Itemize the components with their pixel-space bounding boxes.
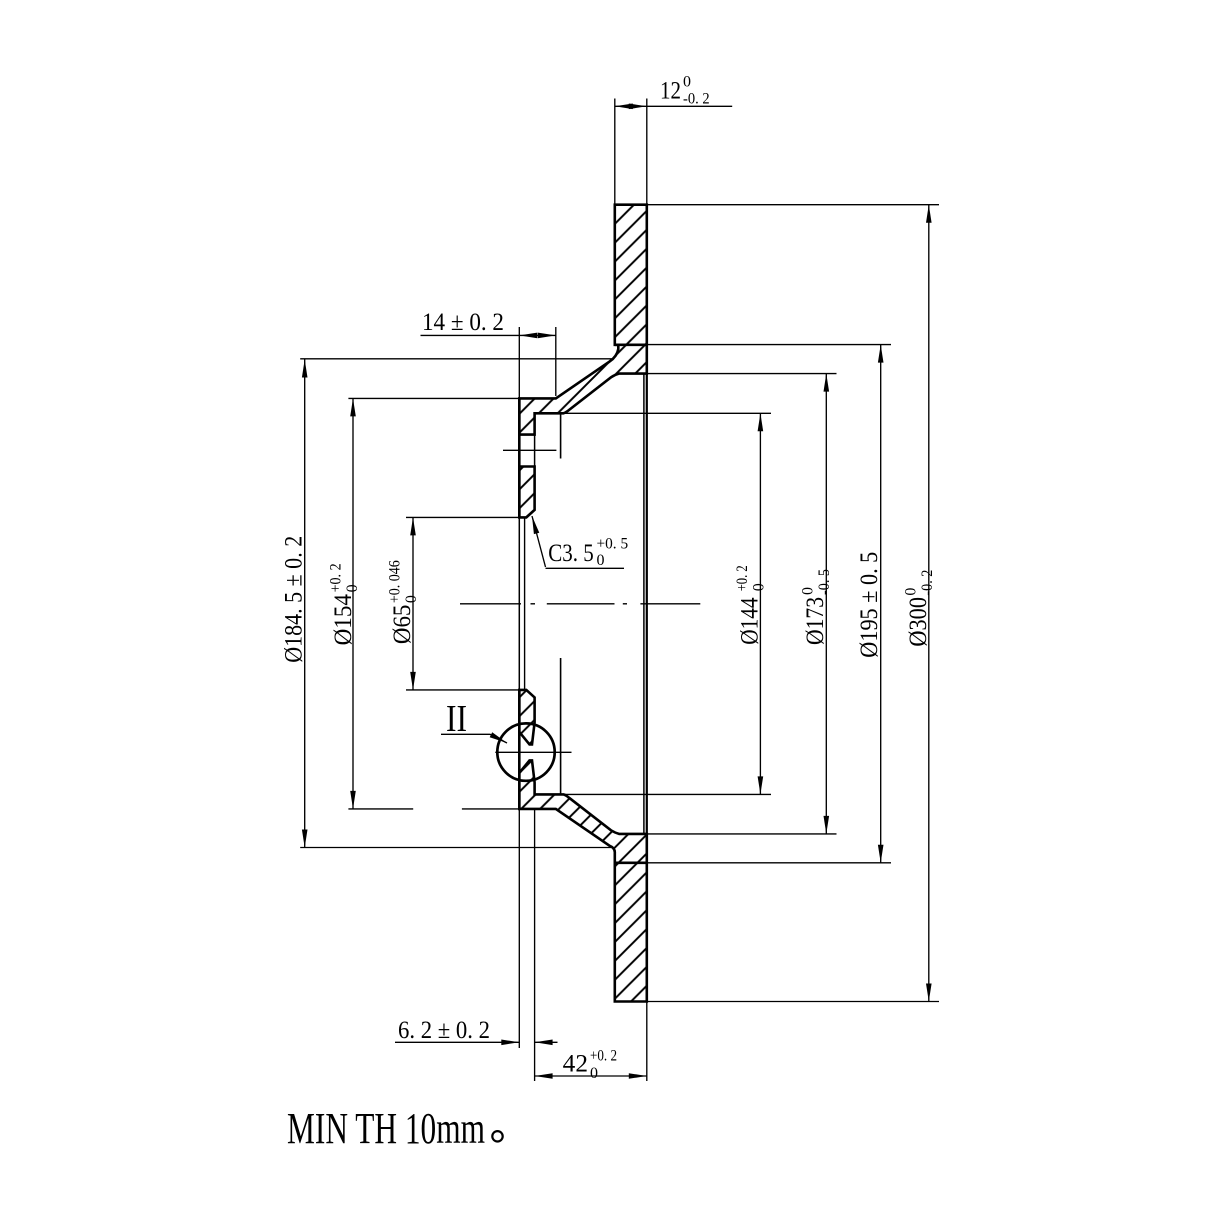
svg-text:Ø144: Ø144	[737, 597, 764, 645]
svg-text:-0. 2: -0. 2	[683, 91, 710, 108]
svg-text:-0. 2: -0. 2	[919, 570, 936, 596]
svg-text:+0. 2: +0. 2	[328, 563, 345, 592]
svg-text:0: 0	[597, 552, 605, 569]
svg-text:42: 42	[563, 1051, 588, 1078]
svg-text:0: 0	[903, 588, 920, 596]
svg-text:0: 0	[403, 595, 420, 603]
svg-text:12: 12	[660, 78, 681, 105]
svg-text:Ø300: Ø300	[905, 597, 932, 647]
svg-text:Ø195 ± 0. 5: Ø195 ± 0. 5	[856, 552, 883, 658]
svg-text:C3. 5: C3. 5	[548, 540, 594, 567]
svg-text:Ø173: Ø173	[802, 597, 829, 645]
svg-text:0: 0	[590, 1065, 598, 1082]
svg-text:0: 0	[344, 584, 361, 592]
svg-text:+0. 046: +0. 046	[387, 560, 404, 603]
svg-text:6. 2 ± 0. 2: 6. 2 ± 0. 2	[398, 1017, 490, 1044]
svg-text:-0. 5: -0. 5	[816, 569, 833, 595]
svg-text:+0. 2: +0. 2	[734, 565, 751, 591]
svg-text:0: 0	[683, 74, 691, 91]
svg-text:0: 0	[751, 583, 768, 591]
svg-text:+0. 2: +0. 2	[590, 1048, 617, 1065]
svg-text:Ø154: Ø154	[330, 594, 357, 646]
svg-text:II: II	[446, 698, 467, 740]
svg-text:Ø184. 5 ± 0. 2: Ø184. 5 ± 0. 2	[281, 536, 308, 663]
svg-text:14 ± 0. 2: 14 ± 0. 2	[422, 309, 504, 336]
svg-text:0: 0	[800, 587, 817, 595]
svg-text:MIN TH 10mm: MIN TH 10mm	[287, 1104, 485, 1153]
svg-text:Ø65: Ø65	[389, 605, 416, 645]
svg-text:+0. 5: +0. 5	[597, 536, 629, 553]
